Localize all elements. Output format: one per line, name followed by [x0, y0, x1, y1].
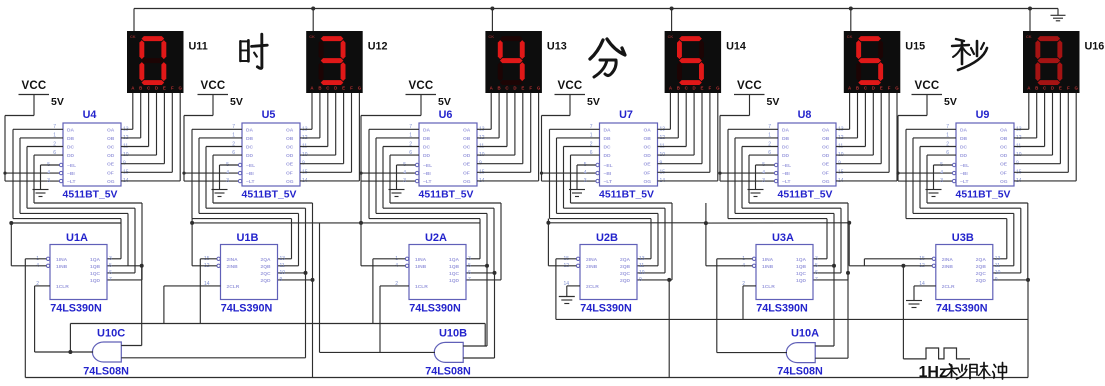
svg-text:1QA: 1QA [449, 257, 460, 263]
wire segment fan U7 to U14 [658, 93, 718, 181]
decoder U4 4511BT_5V [47, 123, 129, 186]
svg-text:OF: OF [644, 170, 651, 176]
svg-text:5: 5 [109, 263, 112, 269]
wire staircase U1A to U4 [13, 129, 142, 280]
svg-text:5V: 5V [944, 96, 957, 108]
svg-text:OB: OB [822, 136, 830, 142]
node U10B inA junction [485, 264, 489, 268]
svg-text:7: 7 [815, 277, 818, 283]
label 4511BT_5V col4 [599, 190, 654, 201]
label U2B [596, 232, 618, 244]
svg-text:2QD: 2QD [620, 278, 631, 284]
node U10A inA junction [832, 264, 836, 268]
svg-text:~EL: ~EL [423, 163, 432, 169]
ground EL col5 [748, 165, 775, 197]
ground EL col1 [33, 165, 60, 197]
svg-text:~BI: ~BI [246, 171, 254, 177]
wire segment fan U5 to U12 [300, 93, 359, 181]
svg-text:OA: OA [107, 127, 115, 133]
svg-text:B: B [1035, 86, 1038, 91]
label U4 [83, 109, 97, 121]
svg-text:OE: OE [1000, 162, 1008, 168]
svg-text:DD: DD [246, 153, 254, 159]
svg-text:9: 9 [995, 277, 998, 283]
wire bottom carry line y=377 [25, 377, 1028, 379]
svg-text:4: 4 [403, 170, 406, 176]
svg-text:~LT: ~LT [423, 179, 431, 185]
svg-text:OB: OB [644, 136, 652, 142]
svg-text:OD: OD [1000, 153, 1008, 159]
wire U1B CLR [164, 286, 221, 324]
svg-text:OA: OA [644, 127, 652, 133]
svg-text:1Hz: 1Hz [919, 364, 947, 381]
wire U10A input A [815, 266, 834, 346]
svg-text:74LS390N: 74LS390N [936, 303, 988, 315]
svg-text:VCC: VCC [201, 80, 226, 92]
svg-text:1QB: 1QB [90, 264, 101, 270]
counter U2A 74LS390N [395, 245, 471, 300]
label 时 (hour) [240, 34, 267, 68]
svg-text:VCC: VCC [915, 80, 940, 92]
svg-text:2CLR: 2CLR [942, 284, 955, 290]
svg-text:B: B [498, 86, 501, 91]
svg-text:OE: OE [644, 162, 652, 168]
ground EL col2 [212, 165, 239, 197]
svg-text:1CLR: 1CLR [56, 284, 69, 290]
svg-text:2INB: 2INB [227, 264, 239, 270]
svg-text:U8: U8 [798, 109, 812, 121]
power VCC 5V col6 [912, 80, 957, 116]
wire VCC feed col6 [898, 116, 952, 182]
svg-text:10: 10 [995, 270, 1001, 276]
svg-text:1QA: 1QA [796, 257, 807, 263]
decoder U7 4511BT_5V [584, 123, 666, 186]
label U11 [189, 41, 208, 53]
counter U1B 74LS390N [204, 245, 285, 300]
wire U10C input B [121, 273, 305, 358]
svg-text:2QC: 2QC [976, 271, 987, 277]
svg-text:DD: DD [782, 153, 790, 159]
svg-text:5V: 5V [438, 96, 451, 108]
svg-text:4: 4 [762, 170, 765, 176]
wire clock into U1B [192, 219, 217, 324]
wire U10A input B [815, 273, 848, 358]
svg-text:VCC: VCC [22, 80, 47, 92]
label U16 [1085, 41, 1105, 53]
svg-text:CK: CK [130, 34, 136, 39]
label 74LS390N col6 [936, 303, 988, 315]
wire staircase U3A to U8 [728, 129, 848, 280]
svg-text:4511BT_5V: 4511BT_5V [956, 190, 1011, 201]
svg-text:~LT: ~LT [782, 179, 790, 185]
svg-text:2QA: 2QA [261, 257, 272, 263]
svg-text:U1A: U1A [66, 232, 88, 244]
svg-text:U9: U9 [976, 109, 990, 121]
label U2A [425, 232, 447, 244]
svg-text:74LS08N: 74LS08N [425, 366, 471, 378]
svg-text:1INB: 1INB [56, 264, 68, 270]
svg-text:~EL: ~EL [604, 163, 613, 169]
label U15 [905, 41, 925, 53]
svg-text:OG: OG [463, 179, 471, 185]
svg-text:DD: DD [67, 153, 75, 159]
svg-text:9: 9 [639, 277, 642, 283]
svg-text:CK: CK [668, 34, 674, 39]
svg-text:OG: OG [286, 179, 294, 185]
wire clock into U1A [25, 259, 46, 378]
svg-text:3: 3 [403, 178, 406, 184]
svg-text:3: 3 [468, 256, 471, 262]
svg-text:DA: DA [67, 127, 75, 133]
svg-text:CK: CK [488, 34, 494, 39]
wire VCC feed col2 [184, 116, 238, 182]
power VCC 5V col2 [198, 80, 243, 116]
node BI junction col6 [896, 172, 899, 175]
wire QD carry drop col6 [1027, 280, 1029, 378]
wire segment fan U8 to U15 [836, 93, 897, 181]
svg-text:OB: OB [1000, 136, 1008, 142]
and-gate U10C 74LS08N [92, 342, 121, 362]
svg-text:~EL: ~EL [960, 163, 969, 169]
svg-text:VCC: VCC [558, 80, 583, 92]
wire pulse drop to U3B clock [902, 266, 904, 359]
svg-text:5: 5 [815, 263, 818, 269]
wire segment fan U6 to U13 [477, 93, 539, 181]
wire U2B CLR to ground [567, 286, 580, 297]
svg-text:~EL: ~EL [246, 163, 255, 169]
svg-text:E: E [880, 86, 883, 91]
label 4511BT_5V col5 [778, 190, 833, 201]
svg-text:1QB: 1QB [796, 264, 807, 270]
svg-text:OG: OG [1000, 179, 1008, 185]
svg-text:B: B [139, 86, 142, 91]
svg-text:U3A: U3A [772, 232, 794, 244]
svg-text:2QB: 2QB [261, 264, 272, 270]
node CK junction col2 [311, 7, 315, 11]
node clock junction U3B [847, 221, 851, 225]
svg-text:B: B [318, 86, 321, 91]
svg-text:DA: DA [960, 127, 968, 133]
svg-text:~BI: ~BI [960, 171, 968, 177]
svg-text:DC: DC [604, 145, 612, 151]
wire segment fan U4 to U11 [121, 93, 180, 181]
wire reset line minutes-seconds y=319.4 [556, 318, 1028, 320]
svg-text:5V: 5V [230, 96, 243, 108]
wire segment fan U9 to U16 [1014, 93, 1076, 181]
wire U3B CLR to ground [914, 286, 936, 301]
wire VCC feed col3 [361, 116, 421, 182]
svg-text:U16: U16 [1085, 41, 1105, 53]
power VCC 5V col1 [19, 80, 64, 116]
svg-text:4511BT_5V: 4511BT_5V [242, 190, 297, 201]
svg-text:E: E [163, 86, 166, 91]
svg-text:OC: OC [644, 145, 652, 151]
label U1B [236, 232, 258, 244]
svg-text:OD: OD [822, 153, 830, 159]
node clock junction U1A [9, 221, 13, 225]
svg-text:DD: DD [604, 153, 612, 159]
label U3B [952, 232, 974, 244]
node U10C inA junction [140, 264, 144, 268]
wire clock riser col5 [705, 203, 707, 223]
svg-text:OE: OE [286, 162, 294, 168]
svg-text:U4: U4 [83, 109, 97, 121]
wire clock into U2B [548, 219, 576, 320]
svg-text:VCC: VCC [409, 80, 434, 92]
svg-text:G: G [358, 86, 362, 91]
svg-text:DC: DC [423, 145, 431, 151]
label 74LS390N col3 [409, 303, 461, 315]
svg-text:U10B: U10B [439, 328, 467, 340]
svg-text:F: F [171, 86, 174, 91]
svg-text:1INA: 1INA [56, 257, 68, 263]
wire VCC feed col5 [720, 116, 774, 182]
svg-text:7: 7 [468, 277, 471, 283]
svg-text:DB: DB [604, 136, 612, 142]
svg-text:1QC: 1QC [449, 271, 460, 277]
svg-text:DC: DC [960, 145, 968, 151]
label U12 [368, 41, 388, 53]
svg-text:4: 4 [940, 170, 943, 176]
svg-text:DB: DB [423, 136, 431, 142]
svg-text:13: 13 [280, 256, 286, 262]
label U10A [791, 328, 819, 340]
svg-text:F: F [529, 86, 532, 91]
svg-text:11: 11 [995, 263, 1000, 269]
svg-text:~EL: ~EL [782, 163, 791, 169]
and-gate U10B 74LS08N [434, 342, 463, 362]
label U3A [772, 232, 794, 244]
svg-text:2QA: 2QA [620, 257, 631, 263]
label 74LS390N col5 [756, 303, 808, 315]
svg-text:2QB: 2QB [620, 264, 631, 270]
label U10C [97, 328, 125, 340]
svg-text:74LS08N: 74LS08N [777, 366, 823, 378]
svg-text:5V: 5V [587, 96, 600, 108]
svg-text:D: D [334, 86, 337, 91]
counter U3A 74LS390N [742, 245, 818, 300]
svg-text:E: E [701, 86, 704, 91]
svg-text:3: 3 [762, 178, 765, 184]
svg-text:OE: OE [107, 162, 115, 168]
svg-text:D: D [513, 86, 516, 91]
svg-text:4: 4 [226, 170, 229, 176]
svg-text:5V: 5V [51, 96, 64, 108]
svg-text:13: 13 [639, 256, 645, 262]
svg-text:DB: DB [960, 136, 968, 142]
svg-text:U7: U7 [619, 109, 633, 121]
svg-text:1QD: 1QD [449, 278, 460, 284]
svg-text:11: 11 [639, 263, 644, 269]
svg-text:4: 4 [584, 170, 587, 176]
svg-text:1QB: 1QB [449, 264, 460, 270]
label 4511BT_5V col3 [419, 190, 474, 201]
decoder U6 4511BT_5V [403, 123, 485, 186]
svg-text:2QB: 2QB [976, 264, 987, 270]
svg-text:OG: OG [107, 179, 115, 185]
decoder U5 4511BT_5V [226, 123, 308, 186]
wire staircase U1B to U5 [192, 129, 313, 280]
wire CK top bus [134, 9, 1058, 32]
svg-text:2INB: 2INB [586, 264, 598, 270]
svg-text:E: E [342, 86, 345, 91]
svg-text:DD: DD [960, 153, 968, 159]
svg-text:10: 10 [639, 270, 645, 276]
svg-text:3: 3 [815, 256, 818, 262]
svg-text:~EL: ~EL [67, 163, 76, 169]
node QD junction col2 [311, 278, 315, 282]
decoder U9 4511BT_5V [940, 123, 1022, 186]
svg-text:~LT: ~LT [246, 179, 254, 185]
svg-text:10: 10 [280, 270, 286, 276]
svg-text:F: F [709, 86, 712, 91]
svg-text:G: G [1074, 86, 1078, 91]
node reset junction U10C out [68, 350, 72, 354]
svg-text:U13: U13 [547, 41, 567, 53]
ground top right [1051, 9, 1066, 21]
svg-text:E: E [1059, 86, 1062, 91]
wire clock into U3B [849, 223, 932, 266]
svg-text:B: B [856, 86, 859, 91]
wire U10C output to CLR net [35, 351, 94, 353]
counter U2B 74LS390N [563, 245, 644, 300]
svg-text:D: D [1051, 86, 1054, 91]
label 74LS08N U10C [83, 366, 129, 378]
svg-text:3: 3 [226, 178, 229, 184]
node CK junction col4 [670, 7, 674, 11]
svg-text:3: 3 [584, 178, 587, 184]
svg-text:~LT: ~LT [960, 179, 968, 185]
svg-text:DA: DA [246, 127, 254, 133]
label 74LS390N col4 [580, 303, 632, 315]
seven-segment display U15 [844, 31, 901, 93]
svg-text:B: B [677, 86, 680, 91]
power VCC 5V col5 [734, 80, 779, 116]
svg-text:4511BT_5V: 4511BT_5V [599, 190, 654, 201]
node QD junction col4 [667, 278, 671, 282]
wire staircase U2A to U6 [369, 129, 501, 280]
wire clock spur col1 y=223 [11, 223, 121, 266]
svg-text:74LS390N: 74LS390N [580, 303, 632, 315]
svg-text:2INB: 2INB [942, 264, 954, 270]
svg-text:DA: DA [423, 127, 431, 133]
node clock junction U2B [546, 221, 550, 225]
seven-segment display U13 [485, 31, 542, 93]
label U6 [439, 109, 453, 121]
seven-segment display U16 [1023, 31, 1080, 93]
svg-text:5: 5 [468, 263, 471, 269]
node BI junction col2 [182, 172, 185, 175]
svg-text:OB: OB [463, 136, 471, 142]
svg-text:2CLR: 2CLR [586, 284, 599, 290]
svg-text:2INA: 2INA [942, 257, 954, 263]
svg-text:3: 3 [940, 178, 943, 184]
svg-text:DB: DB [782, 136, 790, 142]
label U8 [798, 109, 812, 121]
counter U1A 74LS390N [36, 245, 112, 300]
label 4511BT_5V col1 [63, 190, 118, 201]
svg-text:E: E [521, 86, 524, 91]
svg-text:~BI: ~BI [423, 171, 431, 177]
svg-text:74LS390N: 74LS390N [50, 303, 102, 315]
svg-text:F: F [1067, 86, 1070, 91]
node clock junction U3A [704, 221, 708, 225]
label 74LS390N col2 [221, 303, 273, 315]
svg-text:OD: OD [107, 153, 115, 159]
svg-text:G: G [895, 86, 899, 91]
svg-text:3: 3 [47, 178, 50, 184]
label 分 (minute) [590, 39, 625, 77]
svg-text:D: D [872, 86, 875, 91]
seven-segment display U14 [665, 31, 722, 93]
svg-text:OB: OB [107, 136, 115, 142]
wire QD carry drop col4 [668, 280, 670, 378]
wire U10B input A [463, 266, 487, 346]
svg-text:OF: OF [286, 170, 293, 176]
svg-text:3: 3 [109, 256, 112, 262]
node BI junction col1 [3, 172, 6, 175]
svg-text:G: G [716, 86, 720, 91]
svg-text:OA: OA [822, 127, 830, 133]
svg-text:F: F [888, 86, 891, 91]
pulse source 1Hz square wave [903, 348, 970, 359]
node BI junction col5 [718, 172, 721, 175]
svg-text:U11: U11 [189, 41, 208, 53]
label U5 [262, 109, 276, 121]
node U10A inB junction [846, 271, 850, 275]
svg-text:1QD: 1QD [796, 278, 807, 284]
svg-text:OC: OC [107, 145, 115, 151]
node CK junction col5 [849, 7, 853, 11]
power VCC 5V col3 [406, 80, 451, 116]
node clock junction U2A [359, 221, 363, 225]
wire U2A CLR [380, 286, 409, 353]
svg-text:CK: CK [1026, 34, 1032, 39]
svg-text:DB: DB [246, 136, 254, 142]
ground EL col3 [389, 165, 416, 197]
wire QD carry drop col2 [312, 280, 314, 378]
label 秒 (second) [952, 39, 987, 70]
svg-text:11: 11 [280, 263, 285, 269]
node CK junction col6 [1028, 7, 1032, 11]
svg-text:2QC: 2QC [261, 271, 272, 277]
svg-text:1INB: 1INB [415, 264, 427, 270]
svg-text:OC: OC [822, 145, 830, 151]
svg-text:~BI: ~BI [67, 171, 75, 177]
seven-segment display U11 [127, 31, 184, 93]
svg-text:2QD: 2QD [261, 278, 272, 284]
wire U10B input B [463, 273, 494, 358]
wire VCC feed col4 [542, 116, 596, 182]
svg-text:OC: OC [286, 145, 294, 151]
seven-segment display U12 [306, 31, 363, 93]
node clock junction U1B [190, 221, 194, 225]
svg-text:~LT: ~LT [604, 179, 612, 185]
svg-text:OA: OA [1000, 127, 1008, 133]
svg-text:D: D [693, 86, 696, 91]
svg-text:13: 13 [995, 256, 1001, 262]
svg-text:DA: DA [604, 127, 612, 133]
svg-text:OG: OG [644, 179, 652, 185]
svg-text:U14: U14 [726, 41, 746, 53]
wire clock into U3A [706, 223, 752, 353]
svg-text:U12: U12 [368, 41, 388, 53]
decoder U8 4511BT_5V [762, 123, 844, 186]
label 1Hz秒脉冲 [919, 363, 1007, 382]
svg-text:OD: OD [286, 153, 294, 159]
svg-text:OD: OD [644, 153, 652, 159]
node pulse junction [901, 264, 905, 268]
